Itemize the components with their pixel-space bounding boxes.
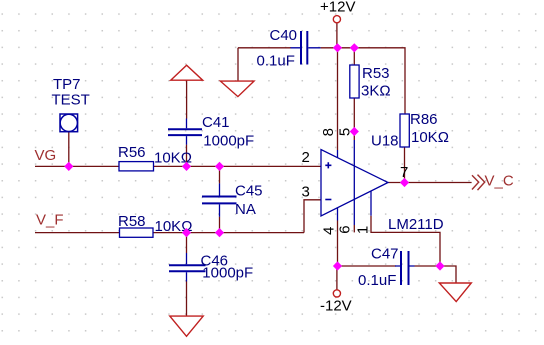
capacitor C45 <box>202 183 237 216</box>
svg-text:1000pF: 1000pF <box>203 133 254 150</box>
svg-text:10KΩ: 10KΩ <box>411 129 449 146</box>
wire pin8 <box>337 48 339 150</box>
op-amp plus input mark <box>325 162 331 168</box>
junction C41 on VG <box>182 162 191 171</box>
wire R86 bottom <box>404 147 406 183</box>
svg-text:V_F: V_F <box>36 211 64 228</box>
resistor R86 <box>400 114 409 147</box>
wire top rail left <box>238 47 291 49</box>
svg-text:2: 2 <box>302 149 310 166</box>
svg-text:1000pF: 1000pF <box>202 265 253 282</box>
junction at rail R53 <box>350 43 359 52</box>
wire C41 top <box>186 80 188 118</box>
svg-text:1: 1 <box>355 226 372 234</box>
svg-text:3: 3 <box>302 184 310 201</box>
svg-text:TEST: TEST <box>52 92 90 109</box>
svg-text:C40: C40 <box>270 27 298 44</box>
capacitor C41 <box>168 119 202 145</box>
wire V_F row <box>35 232 304 234</box>
svg-text:TP7: TP7 <box>53 76 81 93</box>
svg-text:0.1uF: 0.1uF <box>257 53 295 70</box>
svg-text:-12V: -12V <box>320 298 352 315</box>
wire -12V drop <box>336 266 338 290</box>
wire V_F to pin3 <box>304 200 321 233</box>
wire C41 bottom <box>186 145 188 167</box>
wire C46 to ground <box>186 282 188 317</box>
wire R53 top <box>353 48 355 65</box>
svg-text:8: 8 <box>320 128 337 136</box>
op-amp minus input mark <box>325 199 331 201</box>
power arrow down at C40 <box>220 81 254 97</box>
wire C46 top <box>186 233 188 253</box>
capacitor C47 <box>395 251 415 285</box>
test point TP7 <box>60 114 78 132</box>
capacitor C46 <box>169 253 206 282</box>
svg-text:0.1uF: 0.1uF <box>358 272 396 289</box>
svg-text:R58: R58 <box>118 213 146 230</box>
resistor R53 <box>350 65 359 98</box>
junction C45 on VG <box>215 162 224 171</box>
svg-text:V_C: V_C <box>485 173 514 190</box>
svg-text:C47: C47 <box>371 245 399 262</box>
junction output pin7 <box>400 178 409 187</box>
svg-text:+12V: +12V <box>320 0 355 16</box>
wire +12V drop <box>336 23 338 48</box>
junction at +12V rail pin8 <box>333 43 342 52</box>
junction C47 right ground <box>435 261 444 270</box>
power port -12V circle <box>333 290 340 297</box>
svg-text:R56: R56 <box>118 144 146 161</box>
junction TP7 on VG <box>64 162 73 171</box>
svg-text:4: 4 <box>321 227 338 235</box>
svg-text:3KΩ: 3KΩ <box>361 83 391 100</box>
op-amp pin stubs <box>338 140 372 225</box>
wire output <box>388 182 472 184</box>
junction C46 on V_F <box>182 228 191 237</box>
svg-text:R86: R86 <box>410 111 438 128</box>
svg-text:C41: C41 <box>202 114 230 131</box>
power arrow up at C41 <box>171 65 203 80</box>
wire VG row <box>35 165 321 167</box>
capacitor C40 <box>291 31 321 65</box>
net V_C chevrons <box>472 175 485 191</box>
wire R53 bottom to pin5 <box>353 98 355 140</box>
wire C45 top <box>219 166 221 183</box>
svg-text:VG: VG <box>35 147 57 164</box>
wire C45 bottom <box>219 217 221 233</box>
svg-text:LM211D: LM211D <box>388 216 444 233</box>
svg-text:7: 7 <box>400 164 408 181</box>
ground under C46 <box>170 316 203 336</box>
wire pin6 stub <box>353 225 355 232</box>
power port +12V circle <box>333 16 340 23</box>
wire TP7 stem <box>68 132 70 167</box>
junction -12V node <box>333 261 342 270</box>
resistor R58 <box>120 228 154 237</box>
wire C47 row right <box>415 266 457 283</box>
wire pin4 to -12V <box>337 221 339 267</box>
ground under C47 <box>439 283 471 302</box>
svg-text:C45: C45 <box>235 183 263 200</box>
junction C45 on V_F <box>215 228 224 237</box>
wire C40 to ground arrow <box>237 48 239 81</box>
svg-text:R53: R53 <box>362 65 390 82</box>
svg-text:U18: U18 <box>371 132 399 149</box>
resistor R56 <box>119 162 154 171</box>
wire top rail right <box>321 48 405 114</box>
svg-text:NA: NA <box>235 201 256 218</box>
svg-text:6: 6 <box>337 225 354 233</box>
wire pin1 to C47 node <box>371 216 440 266</box>
op-amp U18 triangle <box>321 150 388 217</box>
junction R53 to pin5 <box>350 127 359 136</box>
wire C47 row left <box>338 265 397 267</box>
svg-text:5: 5 <box>337 128 354 136</box>
